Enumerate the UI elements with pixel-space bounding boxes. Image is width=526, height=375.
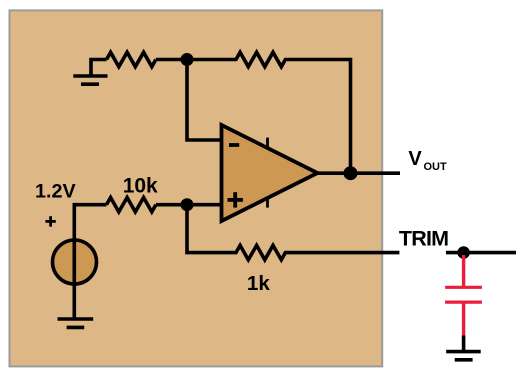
plus polarity mark of V1 [45,216,55,226]
wire: op-amp output to VOUT [318,171,401,175]
wire: ground up to resistor R1 [91,60,107,77]
node A (inverting input junction) [181,53,194,66]
node D (TRIM junction) [457,246,470,259]
wire: R1 to node A [156,58,187,62]
svg-text:V: V [408,148,422,170]
label 10k [123,175,158,198]
resistor R1 (ground to inverting node) [107,52,156,66]
svg-text:10k: 10k [123,175,158,198]
resistor R2 (feedback) with wires to node A and output [187,52,351,173]
capacitor C1 top lead (red) [462,255,465,288]
wire: node B down to resistor R4 1k and out to TRIM [187,205,399,260]
label 1k [247,272,270,295]
capacitor C1 plates (red) [445,287,482,302]
wire: through source, top corner to ground [74,205,106,319]
wire: cap to ground (black) [462,336,466,352]
svg-text:1k: 1k [247,272,270,295]
wire: node A down to inverting input [187,60,222,141]
op-amp inverting input mark [229,143,239,147]
label VOUT [408,148,447,173]
schematic board background [10,10,383,366]
op-amp positive supply pin stub [266,138,269,149]
node C (output junction) [344,166,358,180]
svg-text:OUT: OUT [424,161,448,173]
label 1.2V [35,181,76,203]
op-amp negative supply pin stub [266,197,269,208]
resistor R3 10k [107,198,156,212]
ground (top-left, R1 leg) [73,76,107,84]
wire: TRIM segment right of label [446,251,516,255]
svg-text:1.2V: 1.2V [35,181,76,203]
op-amp U1 [222,125,318,221]
op-amp non-inverting input mark [228,192,243,207]
label TRIM [399,227,448,251]
voltage source V1 1.2V [53,240,97,284]
node B (non-inverting input junction) [181,198,194,211]
capacitor C1 bottom lead (red) [462,301,465,335]
ground (below C1) [446,352,481,360]
svg-text:TRIM: TRIM [399,227,448,251]
ground (below V1) [58,319,94,327]
wire: 10k to node B [156,203,222,207]
